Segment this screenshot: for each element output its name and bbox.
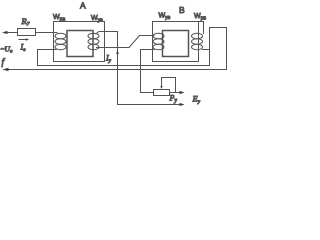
winding Wya coil (88, 33, 99, 50)
wiper loop wire (162, 78, 176, 93)
wire Iy bottom horizontal (118, 104, 180, 106)
wiper arrow of Py (160, 78, 162, 90)
core B center limb (163, 31, 189, 57)
wire left bus down (37, 50, 39, 66)
current arrow Iy on wire (116, 50, 119, 54)
wire resistor to winding Wpa (36, 32, 58, 34)
wire Py output (170, 92, 180, 94)
wire Wyv down to potentiometer (140, 50, 142, 93)
wire Wpv top stub over core (199, 22, 204, 34)
input arrow ~Uv terminal (2, 31, 8, 34)
winding Wpa coil (55, 33, 66, 50)
wire outer right vertical (226, 28, 228, 70)
wire right bus vertical (209, 28, 211, 66)
svg-text:B: B (179, 5, 185, 15)
wire lower bus horizontal (38, 65, 210, 67)
arrow to Ey lower (180, 103, 185, 106)
wire Wyv bottom stub (141, 49, 155, 51)
wire right bus top (210, 27, 227, 29)
core A outer frame (54, 22, 105, 62)
winding Wyv coil (153, 33, 164, 50)
core B outer frame (153, 22, 199, 62)
f line arrow (3, 68, 9, 71)
wire to potentiometer left (141, 92, 154, 94)
wire Iy vertical (117, 32, 119, 105)
wire Wpa bottom to left bus (38, 49, 57, 51)
resistor R7 (18, 29, 36, 36)
current arrow Iv (19, 38, 29, 40)
f line long horizontal (4, 69, 227, 71)
potentiometer Py (154, 90, 170, 96)
wire Wpv bottom stub (203, 49, 210, 51)
wire diagonal to core B (129, 36, 140, 48)
wire Wya bottom stub (97, 47, 130, 49)
wire input to resistor (7, 32, 18, 34)
arrow to Ey upper (180, 91, 185, 94)
core A center limb (67, 31, 93, 57)
wire Wya top stub (96, 32, 118, 34)
winding Wpv coil (192, 33, 203, 50)
svg-text:A: A (80, 1, 86, 11)
wire to winding Wyv (140, 35, 155, 37)
